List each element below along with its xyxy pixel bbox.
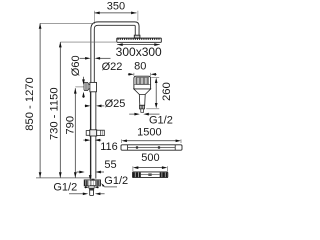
svg-text:55: 55 <box>104 159 116 171</box>
label Ø22 <box>102 61 123 73</box>
label 500 <box>141 152 159 164</box>
label 1500 <box>137 127 161 139</box>
dimension line 500 <box>133 166 167 171</box>
svg-text:G1/2: G1/2 <box>104 175 128 187</box>
valve left block <box>85 180 89 185</box>
wall bracket center <box>90 130 97 136</box>
svg-text:116: 116 <box>100 141 118 153</box>
holder sleeve on pipe <box>90 82 97 91</box>
svg-text:300x300: 300x300 <box>116 45 162 59</box>
label 850 - 1270 <box>24 77 36 131</box>
baseline end arrow <box>89 175 92 180</box>
leader line for side outlet G1/2 <box>101 183 117 187</box>
svg-text:Ø22: Ø22 <box>102 61 123 73</box>
dimension line 260 <box>155 78 158 109</box>
bottom G1/2 arrows <box>69 192 105 195</box>
dimension line 300x300 <box>117 43 159 46</box>
label 55 <box>104 159 116 171</box>
holder taper <box>88 84 90 90</box>
dimension arrows 116 <box>83 139 101 142</box>
dimension line 850-1270 <box>39 23 42 177</box>
shower hose 1500 <box>121 145 182 150</box>
reference line head height <box>60 41 116 43</box>
shower head connector <box>134 35 140 38</box>
label Ø60 <box>70 55 82 76</box>
Ø22 arrows <box>80 57 111 60</box>
wall bracket right wing <box>97 130 105 135</box>
Ø60 arrow lower <box>82 92 85 98</box>
label 730 - 1150 <box>48 87 60 140</box>
valve right outlet <box>96 180 100 185</box>
hand shower nut <box>140 105 145 109</box>
dimension line 730-1150 <box>59 42 62 178</box>
label Ø25 <box>105 98 126 110</box>
svg-text:80: 80 <box>134 60 146 72</box>
dimension arrows 80 <box>128 73 157 76</box>
upper stub <box>89 186 94 188</box>
label G1/2 side outlet <box>104 175 128 187</box>
dimension label 350 <box>107 0 125 12</box>
valve body outline <box>84 180 100 186</box>
lower stub <box>89 188 94 195</box>
hand shower head <box>134 76 151 89</box>
dimension line 350 <box>94 12 136 15</box>
connection hose 500 <box>133 172 168 178</box>
holder knob <box>84 82 88 90</box>
reference line holder height <box>75 86 84 88</box>
260 top tick <box>151 76 159 78</box>
label 116 <box>100 141 118 153</box>
reference baseline <box>36 177 90 179</box>
svg-text:350: 350 <box>107 0 125 12</box>
valve center detail <box>90 180 95 185</box>
Ø60 arrow upper <box>82 77 85 85</box>
260 bottom tick <box>146 108 159 110</box>
overhead rain shower head <box>117 38 162 42</box>
dimension arrows 55 <box>77 171 105 174</box>
label G1/2 bottom inlet <box>53 182 77 194</box>
extension line right of 350 <box>137 11 139 21</box>
svg-text:730 - 1150: 730 - 1150 <box>48 87 60 140</box>
svg-text:Ø25: Ø25 <box>105 98 126 110</box>
dimension line 790 <box>74 88 77 177</box>
label 790 <box>64 116 76 135</box>
svg-text:G1/2: G1/2 <box>53 182 77 194</box>
hand shower taper <box>134 89 151 94</box>
svg-text:850 - 1270: 850 - 1270 <box>24 77 36 131</box>
svg-text:1500: 1500 <box>137 127 161 139</box>
Ø25 arrows <box>85 105 105 108</box>
dimension line 1500 <box>122 139 182 143</box>
label G1/2 hand shower <box>149 114 173 126</box>
svg-text:790: 790 <box>64 116 76 135</box>
hand shower G1/2 arrows <box>129 113 159 116</box>
label 80 <box>134 60 146 72</box>
svg-text:G1/2: G1/2 <box>149 114 173 126</box>
upper stub arrows <box>84 186 99 188</box>
valve top nub <box>91 179 94 180</box>
reference line top (arm height) <box>40 22 95 24</box>
svg-text:260: 260 <box>161 82 173 101</box>
svg-text:500: 500 <box>141 152 159 164</box>
label 260 <box>161 82 173 101</box>
lower column tube <box>90 92 95 179</box>
label 300x300 <box>116 45 162 59</box>
hand shower handle <box>139 94 145 105</box>
wall bracket left wing <box>86 131 90 136</box>
hand shower stub <box>141 109 144 112</box>
shower column riser pipe and gooseneck arm <box>91 22 139 179</box>
extension line left of 350 <box>93 11 95 22</box>
80 extension ticks <box>134 73 151 76</box>
